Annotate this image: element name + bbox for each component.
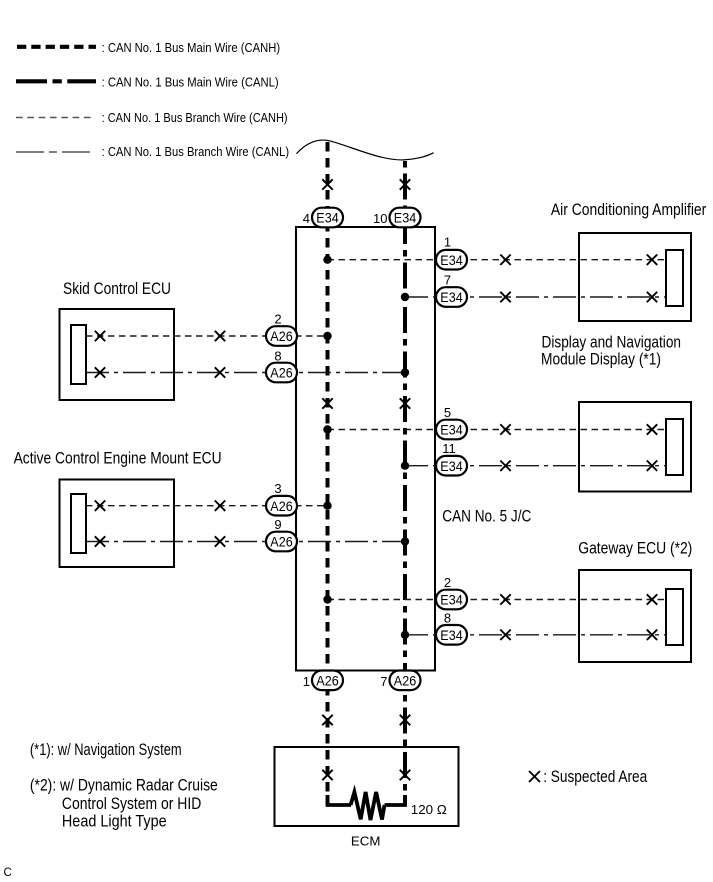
suspected area X row7 inner: [95, 501, 105, 511]
svg-text:E34: E34: [440, 627, 463, 643]
connector oval E34 pin4 top CANH: [312, 208, 343, 228]
branch wire pin2 A26 (CANH) to Skid Control ECU: [86, 335, 328, 337]
junction dot row3 CANH: [323, 332, 331, 340]
suspected area X row1 inner: [647, 255, 657, 265]
svg-text:Air Conditioning Amplifier: Air Conditioning Amplifier: [551, 201, 707, 219]
suspected area X row4 outer: [215, 367, 225, 377]
Gateway ECU box: [579, 570, 691, 662]
connector oval E34 pin7: [436, 287, 467, 307]
svg-text:(*1): w/ Navigation System: (*1): w/ Navigation System: [30, 741, 182, 759]
junction dot row6 CANL: [401, 462, 409, 470]
wavy break line at top of bus: [297, 140, 434, 160]
svg-text:5: 5: [444, 405, 451, 420]
CAN No. 5 J/C box: [296, 227, 435, 671]
svg-text:3: 3: [274, 481, 281, 496]
svg-text:2: 2: [274, 312, 281, 327]
svg-text:1: 1: [444, 235, 451, 250]
svg-text:E34: E34: [394, 210, 417, 226]
suspected area X row3 inner: [95, 331, 105, 341]
suspected area X row8 inner: [95, 536, 105, 546]
suspected area X row8 outer: [215, 536, 225, 546]
suspected area X row5 inner: [647, 424, 657, 434]
suspected area X row3 outer: [215, 331, 225, 341]
suspected area X row4 inner: [95, 367, 105, 377]
svg-text:E34: E34: [440, 422, 463, 438]
suspected area X row6 inner: [647, 461, 657, 471]
svg-text:ECM: ECM: [351, 834, 381, 849]
suspected area X row9 inner: [647, 594, 657, 604]
svg-text:(*2): w/ Dynamic Radar Cruise: (*2): w/ Dynamic Radar Cruise: [30, 777, 218, 795]
connector oval E34 pin1: [436, 250, 467, 270]
svg-text:Display and Navigation: Display and Navigation: [542, 333, 682, 351]
svg-text:: CAN No. 1 Bus Branch Wire (C: : CAN No. 1 Bus Branch Wire (CANH): [102, 111, 288, 125]
svg-text:E34: E34: [440, 458, 463, 474]
svg-text:9: 9: [274, 517, 281, 532]
branch wire pin11 E34 (CANL) to Display and Navigation Module Display: [405, 465, 666, 467]
connector oval E34 pin8: [436, 625, 467, 645]
branch wire pin7 E34 (CANL) to A/C amplifier: [405, 296, 666, 298]
suspected area X row7 outer: [215, 501, 225, 511]
ECM internal wire CANH corner stub: [328, 795, 352, 805]
svg-text:Module Display (*1): Module Display (*1): [541, 350, 661, 368]
legend sample: CAN No.1 Bus Branch Wire (CANH) thin dashed: [16, 117, 95, 119]
svg-text:8: 8: [444, 610, 451, 625]
suspected area X row6 outer: [500, 461, 510, 471]
junction dot row8 CANL: [401, 537, 409, 545]
svg-text:Skid Control ECU: Skid Control ECU: [63, 280, 171, 298]
svg-text:A26: A26: [270, 534, 293, 550]
connector oval E34 pin11: [436, 456, 467, 476]
suspected area X row9 outer: [500, 594, 510, 604]
svg-text:: Suspected Area: : Suspected Area: [543, 768, 648, 786]
connector oval E34 pin10 top CANL: [390, 208, 421, 228]
svg-text:Gateway ECU (*2): Gateway ECU (*2): [578, 540, 692, 558]
svg-text:11: 11: [442, 441, 456, 456]
svg-text:1: 1: [303, 674, 310, 689]
suspected area legend X: [529, 771, 540, 782]
svg-text:120 Ω: 120 Ω: [411, 802, 447, 817]
svg-text:: CAN No. 1 Bus Main Wire (CAN: : CAN No. 1 Bus Main Wire (CANL): [102, 75, 279, 89]
junction dot row7 CANH: [323, 502, 331, 510]
suspected area X on CANH inside ECM: [322, 770, 332, 780]
connector oval A26 pin7 bottom CANL: [390, 671, 421, 691]
connector oval A26 pin8: [266, 363, 297, 383]
branch wire pin2 E34 (CANH) to Gateway ECU: [328, 599, 667, 601]
connector oval E34 pin5: [436, 420, 467, 440]
svg-text:7: 7: [380, 674, 387, 689]
svg-text:: CAN No. 1 Bus Branch Wire (C: : CAN No. 1 Bus Branch Wire (CANL): [102, 145, 290, 159]
main wire CANH vertical (thick dashed): [326, 142, 330, 805]
branch wire pin8 E34 (CANL) to Gateway ECU: [405, 634, 666, 636]
suspected area X on CANH below J/C: [322, 715, 332, 725]
svg-text:7: 7: [444, 273, 451, 288]
junction dot row10 CANL: [401, 631, 409, 639]
junction dot row2 CANL: [401, 293, 409, 301]
svg-text:CAN No. 5 J/C: CAN No. 5 J/C: [442, 507, 531, 525]
suspected area X row1 outer: [500, 255, 510, 265]
junction dot row4 CANL: [401, 368, 409, 376]
suspected area X row10 outer: [500, 630, 510, 640]
suspected area X on CANL above J/C: [400, 179, 410, 189]
junction dot row1 CANH: [323, 256, 331, 264]
Air Conditioning Amplifier connector rectangle: [666, 250, 683, 306]
junction dot row9 CANH: [323, 595, 331, 603]
svg-text:2: 2: [444, 575, 451, 590]
Active Control Engine Mount ECU box: [60, 480, 175, 568]
branch wire pin3 A26 (CANH) to Active Control Engine Mount ECU: [86, 505, 328, 507]
branch wire pin9 A26 (CANL) to Active Control Engine Mount ECU: [86, 541, 405, 543]
connector oval A26 pin1 bottom CANH: [312, 671, 343, 691]
suspected area X row5 outer: [500, 424, 510, 434]
suspected area X row2 inner: [647, 292, 657, 302]
svg-text:Head Light Type: Head Light Type: [62, 812, 167, 830]
suspected area X row2 outer: [500, 292, 510, 302]
resistor 120 ohm zigzag: [351, 792, 385, 820]
legend sample: CAN No.1 Bus Branch Wire (CANL) thin dash-dot: [16, 151, 95, 153]
suspected area X on CANH inside J/C: [322, 398, 332, 408]
svg-text:: CAN No. 1 Bus Main Wire (CAN: : CAN No. 1 Bus Main Wire (CANH): [102, 41, 281, 55]
Gateway ECU connector rectangle: [666, 589, 683, 645]
Display and Navigation Module Display box: [579, 402, 691, 492]
Skid Control ECU box: [60, 309, 175, 400]
ECM box: [275, 747, 459, 826]
connector oval A26 pin2: [266, 326, 297, 346]
svg-text:A26: A26: [270, 498, 293, 514]
branch wire pin1 E34 (CANH) to A/C amplifier: [328, 259, 667, 261]
connector oval A26 pin9: [266, 532, 297, 552]
suspected area X on CANL inside J/C: [400, 398, 410, 408]
Air Conditioning Amplifier box: [579, 233, 691, 321]
svg-text:C: C: [4, 867, 12, 879]
connector oval E34 pin2: [436, 590, 467, 610]
svg-text:E34: E34: [440, 289, 463, 305]
Display and Navigation Module Display connector rectangle: [666, 419, 683, 475]
svg-text:Active Control Engine Mount EC: Active Control Engine Mount ECU: [14, 450, 222, 468]
svg-text:E34: E34: [440, 252, 463, 268]
svg-text:E34: E34: [316, 210, 339, 226]
suspected area X on CANH above J/C: [322, 179, 332, 189]
svg-text:E34: E34: [440, 592, 463, 608]
Active Control Engine Mount ECU connector rectangle: [71, 494, 86, 553]
svg-text:Control System or HID: Control System or HID: [62, 795, 201, 813]
svg-text:A26: A26: [270, 365, 293, 381]
svg-text:A26: A26: [270, 328, 293, 344]
main wire CANL vertical (thick dash-dot): [403, 161, 407, 805]
junction dot row5 CANH: [323, 425, 331, 433]
svg-text:A26: A26: [316, 673, 339, 689]
svg-text:4: 4: [303, 211, 310, 226]
Skid Control ECU connector rectangle: [71, 325, 86, 384]
legend sample: CAN No.1 Bus Main Wire (CANH) thick dashed: [17, 45, 96, 49]
suspected area X on CANL inside ECM: [400, 770, 410, 780]
suspected area X on CANL below J/C: [400, 715, 410, 725]
branch wire pin5 E34 (CANH) to Display and Navigation Module Display: [328, 429, 667, 431]
suspected area X row10 inner: [647, 630, 657, 640]
branch wire pin8 A26 (CANL) to Skid Control ECU: [86, 372, 405, 374]
connector oval A26 pin3: [266, 496, 297, 516]
legend sample: CAN No.1 Bus Main Wire (CANL) thick dash-dot: [16, 79, 96, 83]
svg-text:A26: A26: [394, 673, 417, 689]
ECM internal wire CANL horizontal: [385, 795, 406, 805]
svg-text:10: 10: [373, 211, 387, 226]
svg-text:8: 8: [274, 349, 281, 364]
